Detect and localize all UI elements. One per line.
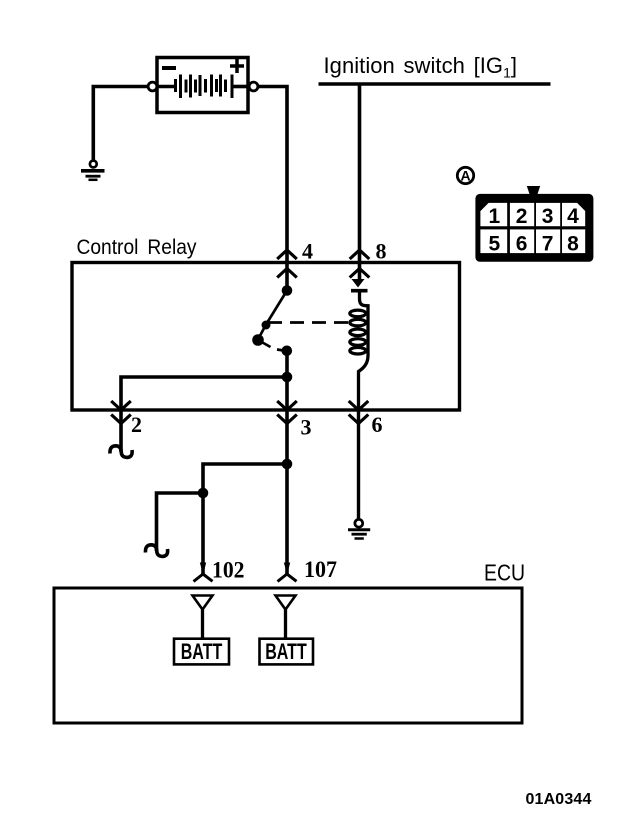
connector A cell 1 — [480, 203, 507, 226]
wire battery negative to ground — [93, 87, 148, 161]
connector A cell 7 — [536, 229, 560, 253]
battery B1 — [157, 58, 248, 113]
BATT box 1 — [174, 639, 229, 665]
wire triangle to BATT 2 — [284, 610, 287, 640]
junction to 102 branch — [282, 459, 293, 470]
svg-text:8: 8 — [567, 232, 579, 255]
svg-text:5: 5 — [488, 232, 500, 255]
dashed mechanical link — [268, 321, 350, 324]
wire battery positive to relay pin 4 — [259, 87, 287, 291]
relay box Control Relay — [72, 263, 460, 411]
wire stub branch — [157, 493, 204, 551]
relay coil lead — [359, 289, 369, 412]
pin 2 arrows — [111, 401, 131, 424]
ECU pin 107 arrow — [284, 563, 290, 575]
connector label A — [457, 167, 473, 183]
junction 102/stub — [198, 488, 209, 499]
wire 102 vertical — [201, 493, 205, 574]
svg-text:6: 6 — [372, 412, 383, 437]
svg-text:A: A — [460, 168, 470, 184]
battery positive terminal — [249, 82, 258, 91]
svg-text:1: 1 — [488, 205, 500, 228]
svg-text:BATT: BATT — [265, 639, 307, 664]
svg-text:2: 2 — [516, 205, 528, 228]
open end curl below pin 2 — [110, 446, 132, 458]
svg-text:01A0344: 01A0344 — [526, 791, 592, 808]
svg-text:6: 6 — [516, 232, 528, 255]
relay contact fixed stub — [277, 350, 287, 352]
pin 3 arrows — [277, 401, 297, 424]
ECU pin 102 arrow — [200, 563, 206, 575]
connector A pin numbers — [488, 205, 579, 255]
connector A body — [475, 186, 593, 262]
ECU input triangle 102 — [193, 596, 213, 610]
wire pin 6 to ground — [357, 410, 360, 520]
svg-text:BATT: BATT — [181, 639, 223, 664]
relay contact arm link node — [262, 321, 271, 330]
wire branch to pin 2 — [121, 377, 287, 452]
wire branch to 102 — [203, 464, 287, 493]
connector A cell 5 — [480, 229, 507, 253]
pin 8 arrows — [350, 250, 370, 278]
svg-text:4: 4 — [567, 205, 579, 228]
svg-text:2: 2 — [131, 412, 142, 437]
BATT box 2 — [260, 639, 314, 665]
ground G2 — [348, 519, 370, 538]
connector A cell 2 — [510, 203, 534, 226]
wire triangle to BATT 1 — [201, 610, 204, 640]
relay contact pivot lead — [258, 340, 271, 347]
svg-text:Control Relay: Control Relay — [77, 236, 197, 259]
relay contact common node — [282, 285, 293, 296]
connector A cell 4 — [562, 203, 585, 226]
relay coil L1 — [350, 310, 366, 354]
svg-text:8: 8 — [376, 239, 387, 264]
ECU box — [54, 588, 522, 723]
relay contact fixed node — [282, 346, 293, 357]
relay contact movable arm — [258, 291, 287, 340]
open end curl on stub — [145, 545, 167, 557]
svg-text:7: 7 — [542, 232, 554, 255]
relay coil arrowhead — [352, 279, 365, 288]
wire ignition switch bus — [319, 82, 551, 86]
pin 4 arrows — [277, 250, 297, 278]
connector A cell 3 — [536, 203, 560, 226]
wire relay contact to ECU pin 107 — [285, 351, 289, 574]
svg-text:3: 3 — [542, 205, 554, 228]
junction relay branch — [282, 372, 293, 383]
svg-text:ECU: ECU — [484, 560, 525, 586]
svg-text:3: 3 — [301, 415, 312, 440]
connector A cell 6 — [510, 229, 534, 253]
svg-text:Ignition switch [IG1]: Ignition switch [IG1] — [324, 53, 518, 81]
svg-text:102: 102 — [212, 558, 245, 583]
svg-text:4: 4 — [302, 239, 313, 264]
battery negative terminal — [148, 82, 157, 91]
connector A cell 8 — [562, 229, 585, 253]
relay coil top bar — [351, 289, 368, 293]
wire ignition switch to relay pin 8 — [358, 84, 362, 279]
relay contact pivot node — [252, 334, 264, 346]
pin 6 arrows — [349, 401, 369, 424]
svg-text:107: 107 — [304, 557, 337, 582]
ground G1 — [81, 161, 105, 180]
ECU input triangle 107 — [276, 596, 296, 610]
